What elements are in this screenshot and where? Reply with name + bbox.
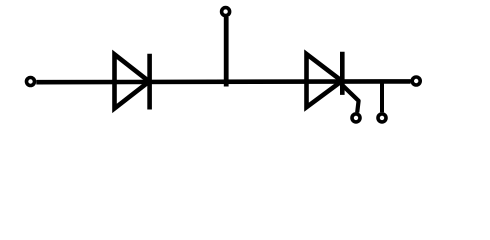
wire auxiliary cathode lead bbox=[380, 82, 384, 112]
diode D1 cathode bar bbox=[147, 54, 152, 110]
terminal auxiliary cathode bbox=[378, 114, 386, 122]
thyristor Q1 triangle bbox=[307, 54, 342, 107]
terminal gate bbox=[352, 114, 360, 122]
wire to top terminal bbox=[224, 17, 229, 87]
terminal 3 (right, cathode) bbox=[412, 77, 420, 85]
thyristor Q1 cathode bar bbox=[340, 52, 345, 95]
thyristor Q1 gate lead bbox=[343, 86, 359, 113]
terminal 1 (left, anode) bbox=[27, 78, 35, 86]
diode D1 triangle bbox=[115, 54, 150, 108]
terminal 2 (top, common) bbox=[222, 8, 230, 16]
wire main horizontal bbox=[36, 79, 410, 84]
